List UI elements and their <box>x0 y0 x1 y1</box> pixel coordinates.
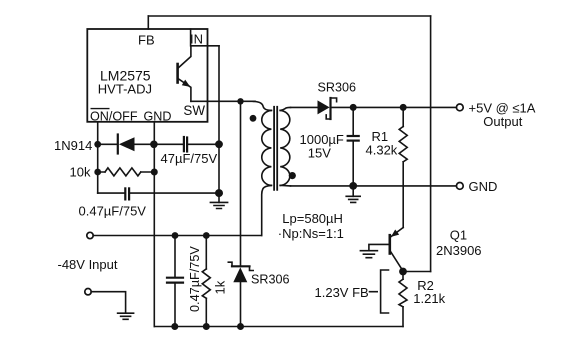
transformer secondary bottom lead <box>280 184 290 187</box>
svg-text:4.32k: 4.32k <box>366 142 398 157</box>
wire ON/OFF pin drop <box>97 122 99 193</box>
node dots bottom rail <box>171 323 244 330</box>
capacitor 1000uF/15V <box>348 107 359 185</box>
svg-text:SR306: SR306 <box>318 81 357 95</box>
node dots output line <box>350 104 407 111</box>
svg-text:GND: GND <box>469 179 498 194</box>
wire SW output line <box>191 100 255 102</box>
terminal input return <box>85 289 91 295</box>
svg-text:1.23V FB: 1.23V FB <box>315 285 369 300</box>
svg-text:·Np:Ns=1:1: ·Np:Ns=1:1 <box>278 226 344 241</box>
wire catch diode anode to bottom rail <box>240 282 242 326</box>
svg-text:ON/OFF: ON/OFF <box>90 110 138 124</box>
node dots row B <box>94 169 158 176</box>
resistor R2 1.21k <box>399 272 407 327</box>
ground Q1 base <box>360 251 377 258</box>
wire FB to Q1 collector <box>403 271 431 273</box>
node SW junction <box>237 98 243 104</box>
wire SW to catch diode <box>240 101 242 266</box>
terminal -48V input <box>87 232 93 238</box>
ground below 1000uF <box>346 186 360 203</box>
svg-text:SR306: SR306 <box>251 272 290 286</box>
transformer primary bottom lead <box>262 185 272 235</box>
svg-text:GND: GND <box>144 110 172 124</box>
wire GND line <box>291 185 457 187</box>
diode SR306 catch (vertical) <box>228 262 253 282</box>
node row C / IN ground <box>215 189 223 197</box>
transformer phase dot secondary <box>289 172 296 179</box>
svg-text:1k: 1k <box>213 280 228 294</box>
svg-text:47µF/75V: 47µF/75V <box>161 151 218 166</box>
wire input return to ground <box>91 292 125 314</box>
op-amp U1 LM2575 box <box>87 29 207 122</box>
transformer T1 primary top lead <box>253 101 271 110</box>
transformer secondary top lead <box>280 107 290 110</box>
node GND line dot <box>349 182 357 190</box>
ground below IN drop <box>210 193 227 208</box>
svg-text:1.21k: 1.21k <box>413 291 445 306</box>
resistor 1k <box>202 236 210 327</box>
wire FB top rail <box>148 15 430 17</box>
transformer T1 secondary winding <box>280 110 290 185</box>
svg-text:Output: Output <box>483 114 522 129</box>
resistor R1 4.32k <box>399 107 407 227</box>
wire -48V rail <box>93 235 262 237</box>
svg-text:1N914: 1N914 <box>54 138 92 153</box>
diode 1N914 <box>118 135 135 154</box>
terminal +5V output <box>456 104 463 111</box>
wire row C (0.47uF row) <box>98 192 219 194</box>
wire row A (1N914 / 47uF row) <box>98 143 219 145</box>
wire +5V output line <box>291 106 457 108</box>
resistor 10k <box>105 168 141 176</box>
wire IN pin drop <box>218 46 220 193</box>
svg-text:10k: 10k <box>70 165 91 180</box>
wire FB right drop <box>430 16 432 272</box>
transistor Q1 2N3906 <box>369 228 403 272</box>
svg-text:2N3906: 2N3906 <box>436 243 482 258</box>
node Q1 collector / R2 / FB <box>399 268 407 276</box>
svg-text:-48V Input: -48V Input <box>58 257 118 272</box>
node dots row A <box>94 140 223 148</box>
wire row B (10k row) <box>98 171 155 173</box>
wire GND pin drop <box>153 122 155 327</box>
transformer phase dot primary <box>250 115 257 122</box>
capacitor 0.47uF/75V lower <box>167 236 183 327</box>
node dots -48V rail <box>172 232 210 239</box>
svg-text:0.47µF/75V: 0.47µF/75V <box>188 246 202 312</box>
svg-text:HVT-ADJ: HVT-ADJ <box>98 82 152 97</box>
pin IN box <box>191 29 219 46</box>
wire FB pin drop <box>147 16 149 29</box>
wire bottom rail <box>154 326 403 328</box>
diode SR306 rectifier (horizontal) <box>318 98 337 119</box>
terminal GND <box>456 183 463 190</box>
svg-text:IN: IN <box>190 31 203 46</box>
bracket 1.23V FB <box>370 270 389 313</box>
svg-text:Lp=580µH: Lp=580µH <box>282 211 343 226</box>
transistor internal (NPN inside LM2575) <box>178 46 191 102</box>
svg-text:SW: SW <box>183 103 205 118</box>
ground input chassis <box>118 313 134 319</box>
svg-text:15V: 15V <box>308 145 331 160</box>
svg-text:Q1: Q1 <box>450 227 467 242</box>
svg-text:FB: FB <box>138 33 155 48</box>
capacitor 0.47uF/75V upper <box>125 188 129 199</box>
transformer T1 primary winding <box>262 110 272 185</box>
svg-text:0.47µF/75V: 0.47µF/75V <box>79 204 147 219</box>
transformer core lines <box>274 107 277 190</box>
capacitor 47uF/75V <box>184 137 187 152</box>
